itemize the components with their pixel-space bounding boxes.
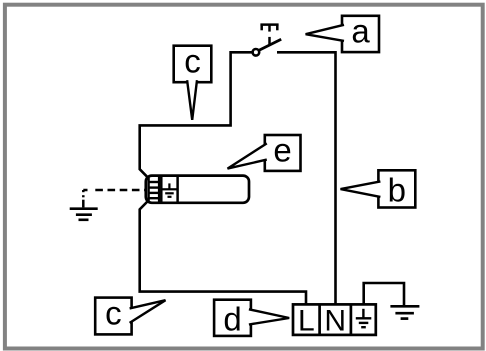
- lamp internal earth symbol: [162, 183, 176, 196]
- callout label c bottom tail: [130, 300, 166, 323]
- svg-text:c: c: [184, 43, 201, 80]
- lamp cap hatched block: [149, 176, 160, 203]
- callout label b tail: [341, 181, 381, 197]
- svg-text:b: b: [388, 172, 406, 209]
- wire from earth terminal to right ground: [364, 283, 404, 306]
- wire from switch right terminal down to terminal N: [277, 52, 336, 304]
- switch S1 blade: [259, 39, 281, 50]
- callout label c bottom box: [95, 298, 131, 335]
- svg-text:c: c: [105, 295, 122, 332]
- svg-text:d: d: [223, 301, 241, 338]
- callout label d tail: [249, 309, 289, 324]
- callout label e box: [265, 135, 301, 171]
- svg-text:e: e: [273, 132, 291, 169]
- switch S1 actuator: [260, 25, 278, 46]
- callout label c top box: [174, 46, 212, 82]
- lamp tube body: [146, 176, 249, 203]
- svg-text:N: N: [324, 304, 346, 337]
- switch S1 pivot contact: [253, 49, 260, 56]
- callout label c top tail: [187, 80, 197, 120]
- svg-text:a: a: [351, 13, 370, 50]
- terminal earth symbol: [356, 309, 372, 327]
- right ground symbol: [390, 306, 419, 318]
- terminal block body: [293, 304, 376, 335]
- callout label e tail: [228, 143, 267, 168]
- terminal block dividers: [318, 304, 321, 335]
- svg-text:L: L: [298, 304, 315, 337]
- callout label d box: [214, 300, 251, 336]
- lamp internal dividers: [160, 176, 163, 203]
- left ground symbol: [70, 209, 98, 220]
- dash-dot vertical earth lead: [82, 190, 85, 207]
- dashed earth lead from lamp cap: [83, 189, 146, 192]
- wire from lamp bottom down and across to terminal L: [140, 202, 306, 305]
- callout label b box: [378, 170, 415, 207]
- callout label a tail: [306, 25, 344, 41]
- callout label a box: [342, 16, 379, 52]
- wire from switch left terminal down and across to lamp: [140, 52, 253, 177]
